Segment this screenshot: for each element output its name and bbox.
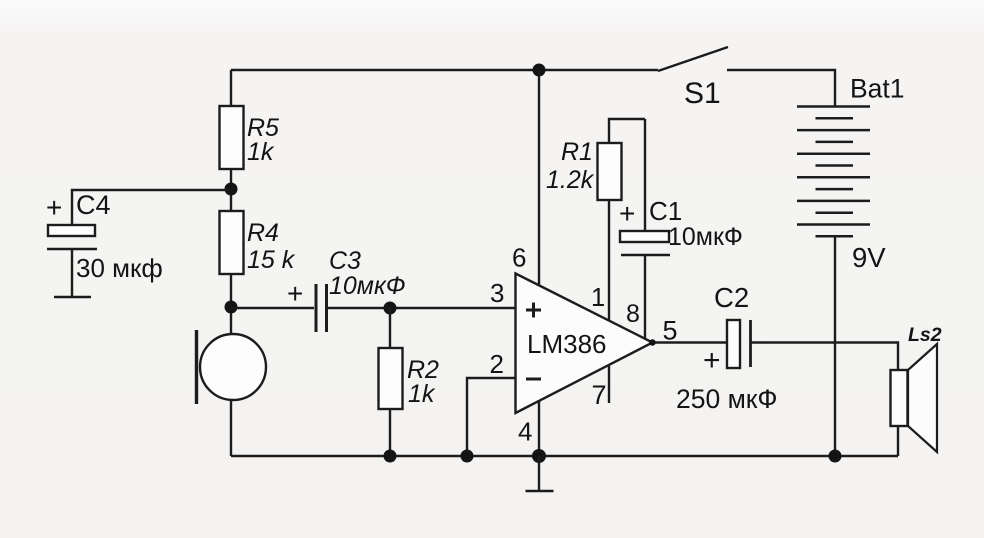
svg-text:30 мкф: 30 мкф [76,253,163,283]
resistor R5 [220,106,244,169]
speaker Ls2 [891,370,908,426]
ground (main) [538,456,540,491]
svg-text:S1: S1 [684,77,721,110]
switch S1 [658,47,728,71]
resistor R1 [598,143,622,200]
svg-text:1k: 1k [247,138,275,166]
node: junction pin4/ground [532,449,546,463]
svg-text:1: 1 [591,284,605,312]
wire: R5 top lead [230,70,232,106]
node: junction R4/mic/C3 [225,301,238,314]
svg-text:1.2k: 1.2k [546,166,595,194]
svg-text:Ls2: Ls2 [908,324,942,346]
ground (C4) [54,296,91,299]
wire: pin 1 lead up to R1 [608,200,610,321]
node: junction top rail to pin 6 [533,64,546,77]
battery Bat1 [797,105,870,108]
svg-text:10мкФ: 10мкФ [668,223,743,251]
wire: pin 2 to ground rail [467,378,516,456]
svg-text:250 мкФ: 250 мкФ [676,384,778,414]
capacitor C3 [315,284,318,332]
wire: bracket down to C1 top plate [644,119,646,231]
wire: battery bottom lead to ground rail [834,236,836,456]
wire: top rail from R5 top to switch left contact [231,69,658,71]
wire: microphone bottom lead [230,399,232,456]
microphone BM1 [200,334,266,400]
wire: R2 bottom lead [389,409,391,456]
svg-text:15 k: 15 k [247,246,296,274]
resistor R2 [389,308,391,348]
svg-text:+: + [287,278,303,309]
svg-text:LM386: LM386 [527,329,607,359]
resistor R4 [220,211,244,274]
wire: C2 to speaker top [750,343,898,371]
node: junction R2/rail [384,450,397,463]
svg-text:Bat1: Bat1 [850,74,905,104]
wire: R5 bottom to R4 top [230,169,232,211]
wire: bottom ground rail [231,455,898,457]
op-amp minus input symbol [526,378,541,381]
svg-text:9V: 9V [852,242,886,273]
node: apex joint [649,339,655,345]
svg-text:C4: C4 [76,190,111,220]
svg-text:2: 2 [490,349,504,379]
node: junction C3/R2 [384,302,397,315]
node: junction pin2/rail [461,450,474,463]
svg-text:R1: R1 [561,138,593,166]
svg-text:8: 8 [626,300,640,328]
svg-text:+: + [703,344,721,377]
capacitor C4 (electrolytic, top plate boxed) [48,225,95,236]
svg-text:R4: R4 [247,219,279,247]
svg-text:+: + [46,192,62,223]
wire: pin 4 lead down to ground rail [538,400,540,456]
wire: junction to C3 left plate [231,307,314,309]
wire: C4 bottom lead [71,249,73,297]
svg-text:1k: 1k [408,380,436,408]
svg-text:5: 5 [663,316,678,346]
wire: C3 to op-amp pin 3 [326,307,516,309]
wire: pin 7 stub [608,366,610,403]
capacitor C2 (electrolytic, left plate boxed) [727,320,740,368]
wire: branch to C4 [72,190,231,225]
op-amp U1 LM386 [516,274,653,414]
capacitor C1 (electrolytic, top plate boxed) [620,231,669,242]
svg-text:C3: C3 [329,247,361,275]
svg-text:C2: C2 [714,282,749,313]
svg-text:C1: C1 [649,196,682,226]
svg-text:10мкФ: 10мкФ [329,272,406,300]
svg-text:3: 3 [490,278,504,308]
node: junction R5/R4/C4 [225,183,238,196]
wire: R1 top to bracket [609,119,645,143]
wire: output pin 5 to C2 [651,341,727,343]
svg-text:+: + [619,198,635,229]
wire: switch right contact to battery top corner [727,70,835,107]
wire: pin 6 vertical line into op-amp [538,70,540,292]
wire: C1 bottom to pin 8 [644,255,646,338]
svg-text:4: 4 [518,417,532,447]
svg-text:7: 7 [592,380,607,410]
wire: speaker bottom lead [897,426,899,456]
node: junction battery/rail [829,450,842,463]
wire: R4 bottom to microphone top [230,274,232,335]
op-amp plus input symbol [526,309,541,312]
svg-text:6: 6 [512,243,526,273]
